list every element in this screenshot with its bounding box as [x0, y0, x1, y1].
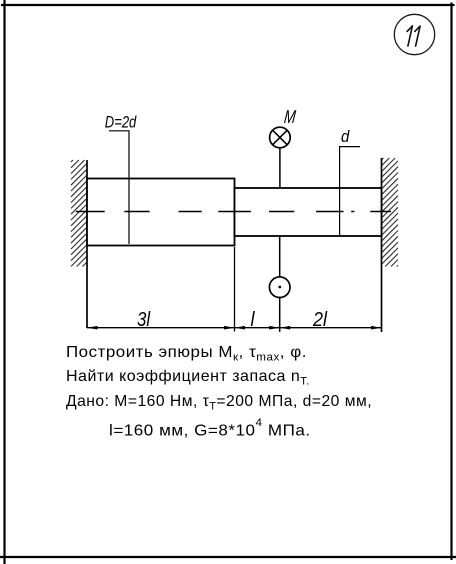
torque line (circle to dimension line) — [279, 298, 281, 332]
leader line d — [340, 147, 360, 236]
right wall support hatching — [382, 158, 399, 267]
svg-text:l=160 мм, G=8*104 МПа.: l=160 мм, G=8*104 МПа. — [109, 417, 311, 439]
torque symbol bottom (circle with dot) — [269, 277, 290, 298]
dimension line — [87, 327, 382, 329]
svg-text:Дано: М=160 Нм, τТ=200 МПа, d=: Дано: М=160 Нм, τТ=200 МПа, d=20 мм, — [66, 393, 372, 413]
variant number circle — [394, 14, 434, 54]
svg-text:M: M — [283, 107, 297, 127]
svg-text:Построить эпюры Мк, τmax, φ.: Построить эпюры Мк, τmax, φ. — [66, 343, 307, 363]
variant number 11 — [407, 26, 420, 46]
left wall line — [86, 160, 88, 328]
svg-text:3l: 3l — [137, 307, 151, 330]
torque line lower (shaft to circle) — [279, 236, 281, 277]
svg-text:D=2d: D=2d — [105, 114, 137, 132]
right wall line — [381, 158, 383, 332]
dimension arrows — [87, 326, 382, 330]
svg-text:2l: 2l — [312, 309, 328, 331]
leader line D=2d — [109, 131, 129, 244]
torque symbol top (circle with cross) — [270, 127, 291, 148]
svg-text:Найти коэффициент запаса nТ.: Найти коэффициент запаса nТ. — [66, 368, 310, 388]
extension line at shaft step — [234, 247, 236, 332]
torque line upper — [279, 148, 281, 188]
left wall support hatching — [71, 160, 87, 267]
svg-text:d: d — [341, 128, 350, 146]
shaft section 1 (diameter D=2d) — [87, 179, 235, 246]
centerline (shaft axis) — [76, 211, 391, 213]
shaft section 2 (diameter d) — [235, 188, 382, 236]
